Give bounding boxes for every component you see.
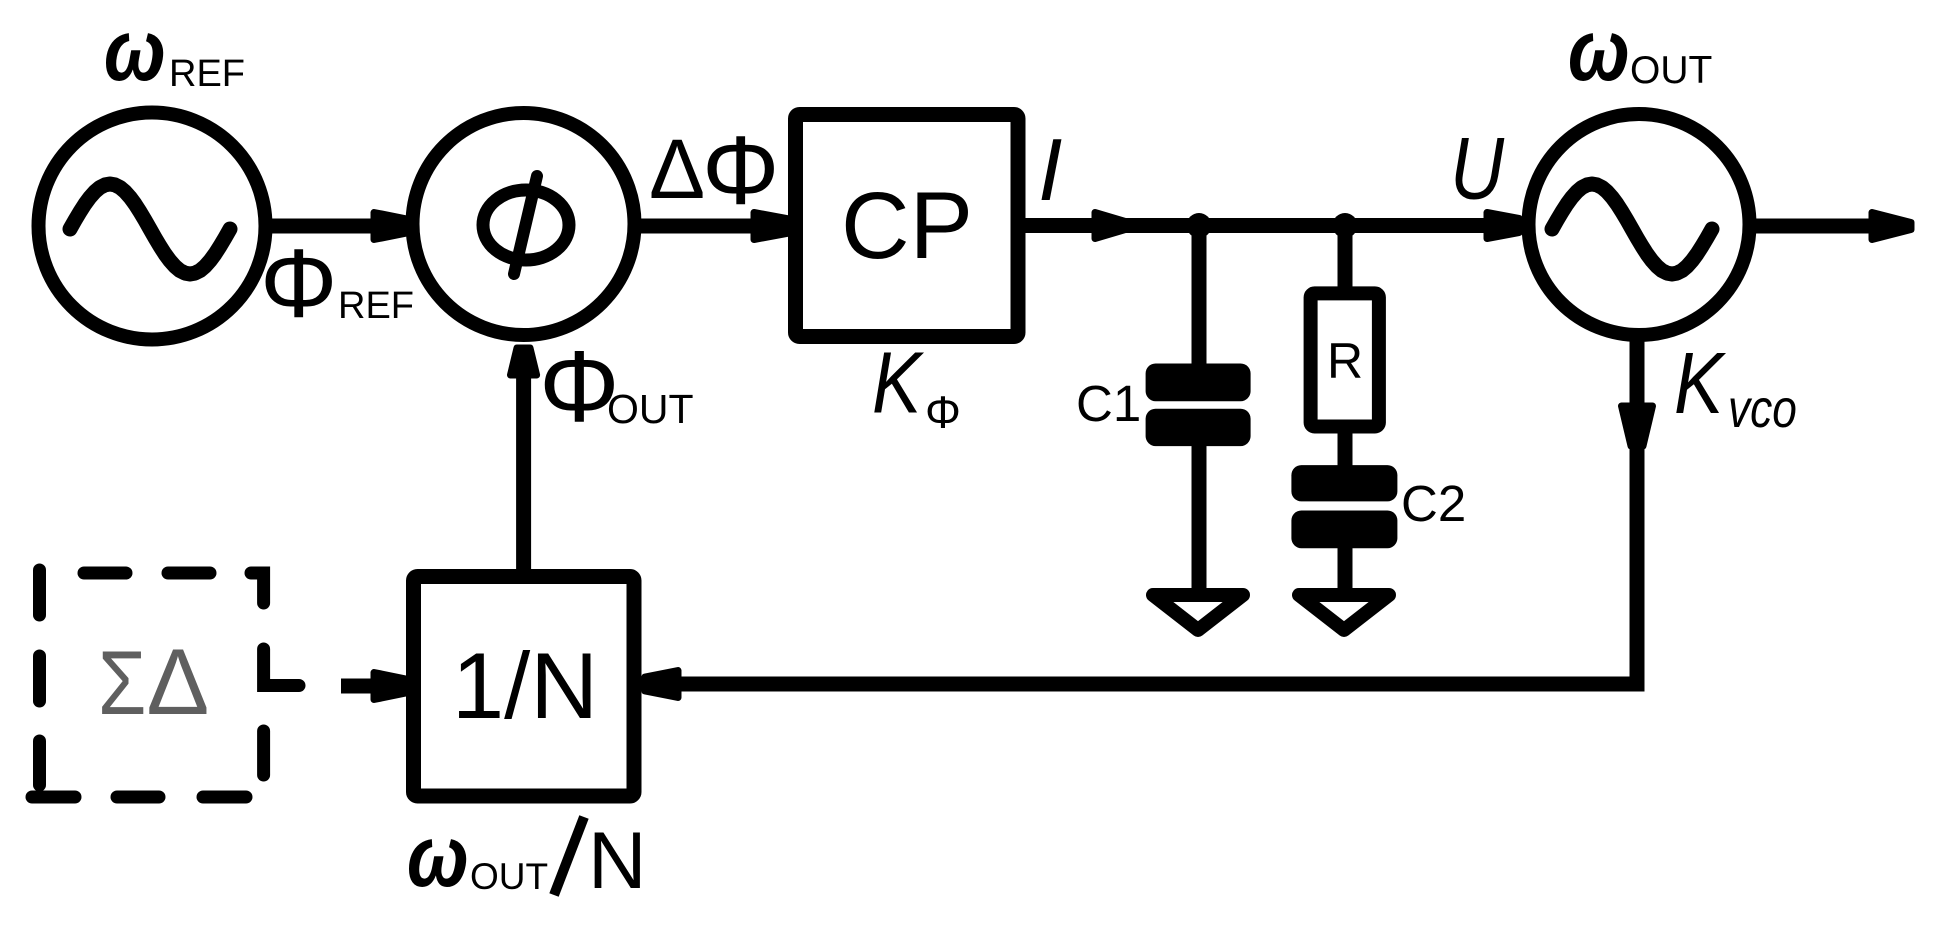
feedback wire VCO down and left to divider bbox=[658, 337, 1637, 684]
wire divider up to phase detector bbox=[516, 372, 531, 576]
svg-text:K: K bbox=[872, 335, 924, 432]
svg-text:Φ: Φ bbox=[925, 387, 961, 438]
capacitor C1 branch wire bbox=[1192, 226, 1207, 368]
svg-text:Δ: Δ bbox=[147, 629, 210, 734]
arrowhead into divider left side bbox=[374, 673, 406, 700]
capacitor C1 bbox=[1146, 364, 1251, 447]
label K_vco bbox=[1674, 335, 1797, 439]
arrowhead mid wire after CP bbox=[1095, 213, 1127, 239]
label Delta Phi bbox=[649, 116, 779, 225]
wire C2 to ground bbox=[1338, 546, 1353, 600]
svg-text:C2: C2 bbox=[1401, 475, 1466, 532]
resistor R branch wire bbox=[1338, 226, 1353, 295]
VCO circle bbox=[1529, 114, 1750, 335]
svg-text:ω: ω bbox=[104, 2, 166, 99]
svg-text:REF: REF bbox=[338, 285, 414, 327]
svg-text:OUT: OUT bbox=[607, 386, 694, 432]
label omega_OUT/N bbox=[407, 808, 647, 906]
arrowhead into phase detector bbox=[374, 213, 407, 240]
VCO output wire bbox=[1751, 219, 1876, 234]
divider 1/N box bbox=[414, 577, 635, 797]
wire REF source to phase detector bbox=[266, 219, 374, 234]
svg-text:vco: vco bbox=[1728, 379, 1797, 439]
svg-text:Δ: Δ bbox=[649, 122, 705, 216]
wire CP to VCO bbox=[1025, 218, 1484, 233]
svg-text:CP: CP bbox=[841, 173, 973, 279]
label Phi_OUT bbox=[539, 331, 694, 443]
svg-text:C1: C1 bbox=[1076, 375, 1141, 432]
svg-text:K: K bbox=[1674, 335, 1726, 432]
label omega_OUT bbox=[1568, 2, 1712, 99]
svg-text:ω: ω bbox=[407, 808, 469, 905]
arrowhead into VCO bbox=[1487, 213, 1519, 239]
svg-text:R: R bbox=[1327, 333, 1363, 389]
junction node C1 bbox=[1187, 213, 1212, 238]
svg-text:U: U bbox=[1450, 120, 1505, 218]
wire sigma-delta to divider bbox=[341, 679, 376, 694]
ground under C2 bbox=[1299, 595, 1389, 630]
svg-text:1/N: 1/N bbox=[452, 633, 598, 738]
svg-text:ω: ω bbox=[1568, 2, 1630, 99]
svg-text:Σ: Σ bbox=[98, 631, 146, 733]
svg-text:I: I bbox=[1038, 120, 1062, 219]
oscillator source REF circle bbox=[39, 113, 266, 340]
svg-text:OUT: OUT bbox=[1630, 49, 1712, 92]
label K_Phi bbox=[872, 335, 961, 438]
svg-text:N: N bbox=[588, 816, 647, 906]
wire phase detector to CP bbox=[638, 219, 754, 234]
sine wave in VCO bbox=[1552, 184, 1712, 274]
capacitor C2 bbox=[1291, 465, 1397, 548]
arrowhead output bbox=[1872, 213, 1911, 240]
phase detector circle bbox=[413, 113, 635, 335]
wire C1 to ground bbox=[1192, 444, 1207, 600]
arrowhead into divider right side bbox=[645, 671, 678, 698]
label Phi_REF bbox=[260, 229, 414, 338]
svg-text:OUT: OUT bbox=[470, 856, 548, 897]
resistor R bbox=[1311, 293, 1379, 426]
charge pump CP box bbox=[796, 115, 1019, 337]
arrowhead into CP bbox=[754, 213, 789, 240]
arrowhead down on feedback bbox=[1622, 406, 1653, 446]
svg-text:Φ: Φ bbox=[260, 229, 337, 338]
sigma-delta dashed box bbox=[32, 570, 299, 797]
svg-text:REF: REF bbox=[169, 53, 245, 95]
sine wave in REF source bbox=[70, 184, 230, 274]
junction node R bbox=[1333, 213, 1358, 238]
label omega_REF bbox=[104, 2, 245, 99]
phi symbol in phase detector bbox=[483, 176, 569, 274]
svg-text:Φ: Φ bbox=[702, 116, 779, 225]
arrowhead up into phase detector bbox=[511, 348, 537, 375]
wire R to C2 bbox=[1338, 426, 1353, 470]
ground under C1 bbox=[1153, 595, 1243, 630]
